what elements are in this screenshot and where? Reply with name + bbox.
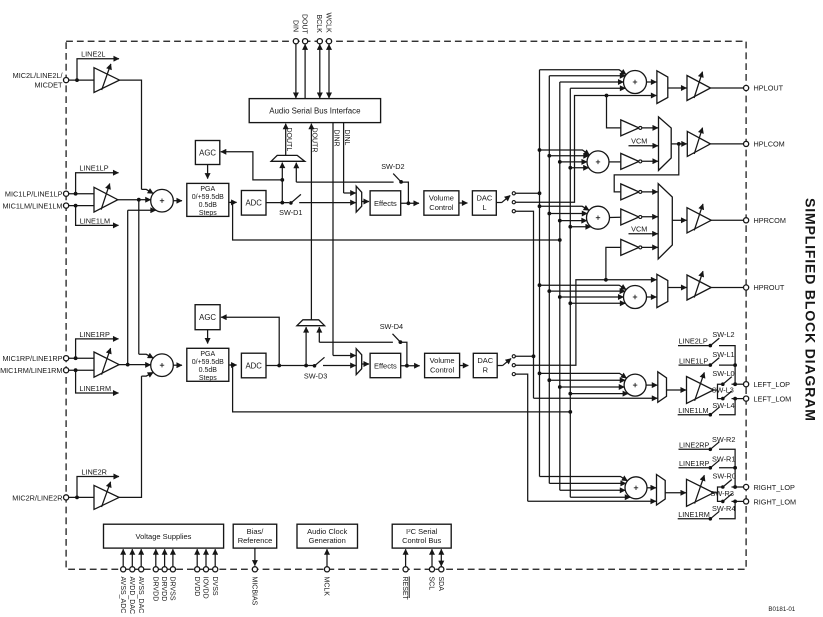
svg-text:DRVSS: DRVSS <box>169 577 176 601</box>
wire v3 to HPROUT sum <box>549 290 625 292</box>
net LINE2L stub <box>77 50 119 81</box>
pin LEFT_LOM <box>744 395 792 404</box>
pin MCLK <box>323 549 330 596</box>
wire DOUTL mux in2 <box>295 163 297 182</box>
svg-text:SCL: SCL <box>428 577 435 591</box>
i2c serial control bus box <box>392 524 451 548</box>
svg-text:DIN: DIN <box>291 20 298 32</box>
svg-text:Volume: Volume <box>429 194 454 203</box>
svg-text:HPLCOM: HPLCOM <box>754 140 785 149</box>
svg-text:RIGHT_LOM: RIGHT_LOM <box>754 497 797 506</box>
wire v8 to HPLOUT mux <box>607 95 657 97</box>
wire volume R to DAC R <box>460 365 469 367</box>
bus wire v5 <box>558 82 562 490</box>
wire DINR <box>332 123 355 356</box>
wire RIGHTLO mux to amp <box>665 492 686 494</box>
svg-text:SW-L2: SW-L2 <box>712 330 734 339</box>
svg-text:Steps: Steps <box>199 210 217 217</box>
svg-text:LINE1LP: LINE1LP <box>679 356 708 365</box>
wire v3 to HPLCOM sum <box>549 155 589 157</box>
mux HPROUT <box>657 274 668 307</box>
bus wire v7 <box>568 88 572 497</box>
wire DACR throw1 to v1 <box>515 355 533 357</box>
wire sum to HPROUT mux <box>647 296 657 298</box>
agc R box <box>195 305 220 330</box>
svg-text:LINE1RP: LINE1RP <box>679 459 710 468</box>
amplifier A-HPLCOM <box>687 128 710 157</box>
svg-text:I2C Serial: I2C Serial <box>406 527 438 536</box>
svg-text:BCLK: BCLK <box>315 15 322 34</box>
wire DACR throw3 to v0 <box>515 374 527 501</box>
net VCM label L <box>629 137 659 146</box>
amplifier A-HPRCOM <box>687 204 711 233</box>
pin AVSS_DAC <box>137 549 144 613</box>
svg-text:DAC: DAC <box>477 356 493 365</box>
pin IOVDD <box>202 549 209 598</box>
amplifier A-1L <box>94 184 118 213</box>
wire v5 to LEFTLO sum <box>560 386 624 388</box>
wire v2 to LEFTLO sum <box>540 373 627 378</box>
wire amp2L to sum1 <box>142 189 154 193</box>
pin DRVDD <box>160 549 167 601</box>
svg-text:WCLK: WCLK <box>324 13 331 34</box>
svg-text:HPROUT: HPROUT <box>754 283 785 292</box>
svg-text:Audio Serial Bus Interface: Audio Serial Bus Interface <box>269 107 361 116</box>
pin MIC1RP/LINE1RP <box>2 354 68 363</box>
wire SWR1/R2 to RIGHT_LOP <box>734 468 736 487</box>
wire v3 to HPLOUT sum <box>549 75 625 77</box>
volume control L box <box>424 191 459 215</box>
summing mixer SUM-HPLOUT <box>624 71 647 94</box>
wire to HPLCOM pin <box>710 143 743 145</box>
bus wire v3 <box>547 76 551 484</box>
svg-text:DINL: DINL <box>343 130 350 146</box>
svg-text:Control: Control <box>429 203 454 212</box>
mux effects R input <box>356 349 362 375</box>
svg-text:LINE2LP: LINE2LP <box>679 337 708 346</box>
wire ADC-L node up to DOUTL mux <box>280 163 284 203</box>
switch SW-D3 <box>304 357 356 380</box>
svg-text:MCLK: MCLK <box>323 577 330 597</box>
wire v0 to RIGHTLO mux <box>528 500 656 502</box>
pin MIC2L/LINE2L/MICDET <box>13 71 69 89</box>
svg-text:LINE1LP: LINE1LP <box>79 164 108 173</box>
svg-text:RIGHT_LOP: RIGHT_LOP <box>754 483 795 492</box>
pin RIGHT_LOP <box>744 483 795 492</box>
wire v7 to HPRCOM sum <box>570 226 591 228</box>
pin HPLOUT <box>744 84 784 93</box>
svg-text:SW-D3: SW-D3 <box>304 372 327 381</box>
svg-text:LINE1LM: LINE1LM <box>678 406 708 415</box>
wire MIC1LP to amp <box>69 192 94 196</box>
wire v5 to HPLCOM sum <box>560 161 587 163</box>
switch SW-D1 <box>279 194 356 217</box>
amplifier A-2L <box>94 64 120 93</box>
switch SW-L4 net LINE1LM <box>678 399 735 417</box>
wire sum to RIGHTLO mux <box>647 487 656 489</box>
pin HPROUT <box>744 283 785 292</box>
svg-text:ADC: ADC <box>245 361 262 370</box>
svg-text:Control Bus: Control Bus <box>402 536 441 545</box>
net LINE1RM stub <box>76 370 119 393</box>
pin LEFT_LOP <box>744 380 791 389</box>
svg-text:SW-R4: SW-R4 <box>712 504 735 513</box>
mux LEFTLO <box>658 372 667 403</box>
svg-text:SIMPLIFIED BLOCK DIAGRAM: SIMPLIFIED BLOCK DIAGRAM <box>802 198 818 422</box>
effects R box <box>370 353 401 377</box>
svg-text:SW-L1: SW-L1 <box>712 350 734 359</box>
switch SW-L3 <box>712 386 744 401</box>
buffer B-HPRCOM1 <box>621 184 658 200</box>
pin BCLK <box>315 15 322 99</box>
pin AVSS_ADC <box>119 549 126 613</box>
wire DOUTR to ASBI <box>311 124 318 320</box>
svg-text:MIC1RP/LINE1RP: MIC1RP/LINE1RP <box>2 354 62 363</box>
wire v5 to HPLOUT sum <box>560 81 624 83</box>
svg-text:DRVDD: DRVDD <box>160 577 167 602</box>
wire v7 to HPROUT sum <box>570 302 625 304</box>
mux HPLOUT <box>657 71 668 104</box>
pin MIC1LP/LINE1LP <box>5 190 69 199</box>
svg-text:LINE2R: LINE2R <box>81 467 107 476</box>
wire amp2L out <box>120 80 142 189</box>
wire DACL throw2 to v8 <box>515 94 608 203</box>
wire to HPROUT pin <box>711 287 743 289</box>
mux effects L input <box>356 186 362 212</box>
svg-text:SW-R0: SW-R0 <box>713 472 736 481</box>
svg-text:SDA: SDA <box>437 577 444 592</box>
svg-text:Generation: Generation <box>309 536 346 545</box>
wire AGC-R feedback <box>221 317 279 365</box>
switch SW-L1 net LINE1LP <box>679 350 737 367</box>
pga R box <box>187 348 229 382</box>
wire v8b to HPROUT mux <box>606 279 657 281</box>
wire v3 to LEFTLO sum <box>549 379 625 381</box>
wire v3 to RIGHTLO sum <box>549 482 626 484</box>
wire HPLOUT mux to amp <box>668 87 687 89</box>
audio clock generation box <box>297 524 358 548</box>
effects L box <box>370 191 401 215</box>
wire PGA-R to ADC-R <box>229 363 237 367</box>
wire ADC-L out <box>266 201 289 205</box>
svg-text:LINE2RP: LINE2RP <box>679 440 710 449</box>
svg-text:AGC: AGC <box>199 313 216 322</box>
svg-text:MIC1RM/LINE1RM: MIC1RM/LINE1RM <box>0 366 62 375</box>
switch SW-R4 net LINE1RM <box>678 501 736 520</box>
svg-text:0.5dB: 0.5dB <box>199 202 218 209</box>
svg-text:DOUTR: DOUTR <box>311 128 318 153</box>
svg-text:RESET: RESET <box>401 577 408 601</box>
pin AVDD_DAC <box>128 549 135 614</box>
adc R box <box>241 353 266 378</box>
svg-text:SW-R1: SW-R1 <box>712 454 735 463</box>
wire to HPLOUT pin <box>711 87 744 89</box>
wire MIC2R to amp <box>69 496 94 500</box>
wire v7 to HPLOUT sum <box>570 87 625 89</box>
svg-text:L: L <box>482 203 486 212</box>
mux DOUTL (flat) <box>271 155 305 161</box>
net LINE2R stub <box>77 467 119 497</box>
wire MIC1RM to amp <box>69 368 94 372</box>
wire amp1R to sum2 <box>119 364 151 366</box>
summing mixer SUM-RIGHTLO <box>625 477 647 499</box>
wire DINL <box>343 123 356 193</box>
wire AGC-L feedback <box>221 152 282 180</box>
wire DACL throw1 to v2 <box>515 191 541 195</box>
wire sum to HPLOUT mux <box>647 81 657 83</box>
svg-text:LINE1RM: LINE1RM <box>79 384 111 393</box>
wire HPROUT mux to amp <box>668 287 687 289</box>
svg-text:MICBIAS: MICBIAS <box>251 577 258 606</box>
adc L box <box>241 191 266 216</box>
svg-text:DINR: DINR <box>332 130 339 147</box>
pin DOUT <box>301 14 308 99</box>
svg-text:DOUTL: DOUTL <box>285 128 292 152</box>
wire volume L to DAC L <box>459 202 468 204</box>
mux HPLCOM <box>659 117 672 170</box>
wire sum to HPLCOM buf2 <box>609 161 620 163</box>
svg-text:ADC: ADC <box>245 199 262 208</box>
wire sum2 to PGA-R <box>173 364 182 366</box>
pin DVSS <box>211 549 218 596</box>
svg-text:AVSS_ADC: AVSS_ADC <box>119 577 126 614</box>
wire sum1 to PGA-L <box>173 200 182 202</box>
mux DOUTR (flat) <box>297 320 325 326</box>
switch SW-L0 <box>712 369 743 386</box>
svg-text:LEFT_LOM: LEFT_LOM <box>754 395 792 404</box>
amplifier A-HPROUT <box>687 271 711 300</box>
wire PGA-L to ADC-L <box>229 201 237 205</box>
wire v5 to HPRCOM sum <box>560 220 587 222</box>
buffer B-HPRCOM3 <box>621 239 658 255</box>
wire v1 to LEFTLO mux <box>534 397 658 399</box>
wire PGA-L feedback to bus <box>233 202 562 242</box>
svg-text:Audio Clock: Audio Clock <box>307 527 347 536</box>
svg-text:SW-D1: SW-D1 <box>279 208 302 217</box>
wire v3 to HPRCOM sum <box>549 213 587 215</box>
agc L box <box>195 141 219 165</box>
pin RESET <box>401 549 409 600</box>
svg-text:MIC1LP/LINE1LP: MIC1LP/LINE1LP <box>5 190 63 199</box>
audio serial bus interface U-ASBI <box>249 99 380 123</box>
svg-text:Voltage Supplies: Voltage Supplies <box>136 532 192 541</box>
volume control R box <box>425 353 460 377</box>
dac L box <box>472 191 496 215</box>
bus wire v2 <box>538 70 542 477</box>
switch SW-R1 net LINE1RP <box>679 454 737 469</box>
pin DVDD <box>193 549 200 596</box>
title SIMPLIFIED BLOCK DIAGRAM <box>802 198 818 422</box>
wire DACR throw2 to v8b <box>515 278 607 365</box>
wire amp1L to sum1 <box>118 198 151 202</box>
wire v2 to HPLCOM sum <box>540 150 590 155</box>
chip boundary (dashed) <box>66 41 746 569</box>
summing mixer SUM-LEFTLO <box>624 374 646 396</box>
wire effects R mux out <box>362 363 369 365</box>
figure number B0181-01 <box>768 606 795 613</box>
svg-text:Bias/: Bias/ <box>247 527 265 536</box>
wire amp1R branch to sum1 <box>126 210 156 366</box>
wire amp1L branch to sum2 <box>139 200 153 358</box>
switch DAC-L throws <box>496 192 515 213</box>
switch SW-R2 net LINE2RP <box>679 435 736 468</box>
bias/reference box <box>233 524 277 548</box>
summing mixer SUM-R <box>151 354 174 377</box>
wire v2 to HPLOUT sum <box>540 70 627 75</box>
wire v2 to HPROUT sum <box>540 285 627 289</box>
summing mixer SUM-HPLCOM <box>587 151 609 173</box>
svg-text:LINE1RP: LINE1RP <box>79 330 110 339</box>
wire RIGHTLO amp out split <box>714 487 722 501</box>
pin RIGHT_LOM <box>744 497 797 506</box>
svg-text:0/+59.5dB: 0/+59.5dB <box>192 359 224 366</box>
wire effects R out <box>401 364 420 368</box>
svg-text:PGA: PGA <box>200 186 215 193</box>
wire v2 to RIGHTLO sum <box>540 477 628 481</box>
svg-text:Reference: Reference <box>238 536 273 545</box>
svg-text:SW-L0: SW-L0 <box>712 369 734 378</box>
svg-text:LINE1LM: LINE1LM <box>80 216 110 225</box>
net VCM label R <box>629 225 658 234</box>
svg-text:HPLOUT: HPLOUT <box>754 84 784 93</box>
svg-text:Steps: Steps <box>199 375 217 382</box>
mux RIGHTLO <box>657 475 666 506</box>
svg-text:SW-L3: SW-L3 <box>712 386 734 395</box>
net LINE1RP stub <box>76 330 119 358</box>
svg-text:MIC2L/LINE2L/: MIC2L/LINE2L/ <box>13 71 64 80</box>
svg-text:MICDET: MICDET <box>35 80 64 89</box>
svg-text:SW-L4: SW-L4 <box>712 401 734 410</box>
amplifier A-LEFTLO <box>687 372 714 403</box>
svg-text:PGA: PGA <box>200 351 215 358</box>
svg-text:Effects: Effects <box>374 361 397 370</box>
buffer B-HPLCOM1 <box>621 120 658 136</box>
svg-text:LINE2L: LINE2L <box>81 50 105 59</box>
pin MICBIAS <box>251 548 258 606</box>
pin MIC1LM/LINE1LM <box>2 202 68 211</box>
wire effects L out <box>401 201 419 205</box>
pin MIC2R/LINE2R <box>12 493 68 502</box>
wire DACL throw3 to v1 <box>515 211 535 398</box>
wire amp2R to sum2 <box>119 372 153 497</box>
svg-text:DAC: DAC <box>476 194 492 203</box>
dac R box <box>473 353 497 377</box>
svg-text:0.5dB: 0.5dB <box>199 367 218 374</box>
pin SCL <box>428 549 435 590</box>
svg-text:AVSS_DAC: AVSS_DAC <box>137 577 144 614</box>
switch SW-R3 <box>711 489 744 504</box>
svg-text:Control: Control <box>430 365 455 374</box>
switch SW-L2 net LINE2LP <box>678 330 735 365</box>
amplifier A-1R <box>94 348 119 377</box>
wire v7 to LEFTLO sum <box>570 393 628 395</box>
svg-text:IOVDD: IOVDD <box>202 577 209 599</box>
svg-text:MIC1LM/LINE1LM: MIC1LM/LINE1LM <box>2 202 62 211</box>
amplifier A-RIGHTLO <box>687 475 714 506</box>
wire v5 to HPROUT sum <box>560 296 624 298</box>
wire effects L mux out <box>362 201 369 203</box>
pin HPLCOM <box>744 140 785 149</box>
svg-text:DRVDD: DRVDD <box>151 577 158 602</box>
wire v2 to HPRCOM sum <box>540 206 590 210</box>
amplifier A-2R <box>94 482 119 510</box>
pin MIC1RM/LINE1RM <box>0 366 69 375</box>
wire AGC-L to PGA-L <box>207 165 209 179</box>
wire to HPRCOM pin <box>711 219 743 221</box>
wire MIC1RP to amp <box>69 356 94 360</box>
svg-text:SW-R2: SW-R2 <box>712 435 735 444</box>
svg-text:0/+59.5dB: 0/+59.5dB <box>192 194 224 201</box>
pin DRVDD <box>151 549 158 601</box>
svg-text:B0181-01: B0181-01 <box>768 606 795 613</box>
wire DOUTR mux in2 <box>318 327 320 342</box>
svg-text:SW-R3: SW-R3 <box>711 489 734 498</box>
net LINE1LP stub <box>76 164 119 194</box>
summing mixer SUM-HPROUT <box>624 286 647 309</box>
svg-text:Effects: Effects <box>374 199 397 208</box>
pin DRVSS <box>169 549 176 601</box>
wire LEFTLO amp out split <box>714 384 722 398</box>
wire LEFTLO mux to amp <box>667 389 687 391</box>
buffer B-HPRCOM2 <box>621 209 658 225</box>
wire DOUTL to ASBI <box>285 124 292 156</box>
svg-text:LINE1RM: LINE1RM <box>678 510 710 519</box>
wire AGC-R to PGA-R <box>207 330 209 344</box>
mux HPRCOM <box>658 184 672 259</box>
wire v7 to HPLCOM sum <box>570 167 588 169</box>
svg-text:LEFT_LOP: LEFT_LOP <box>754 380 791 389</box>
summing mixer SUM-L <box>151 189 174 212</box>
voltage supplies box <box>104 524 224 548</box>
net LINE1LM stub <box>76 206 119 226</box>
pga L box <box>187 183 229 217</box>
wire v8 branch to HPLCOM buf <box>607 96 621 128</box>
wire HPLCOM crossfeed to HPRCOM buf <box>614 144 679 192</box>
wire SWL1/L2 to LEFT_LOP <box>734 365 736 384</box>
svg-text:SW-D2: SW-D2 <box>381 162 404 171</box>
wire HPLCOM mux to amp <box>671 142 687 146</box>
svg-text:R: R <box>483 365 489 374</box>
wire v5 to RIGHTLO sum <box>560 489 625 491</box>
wire MIC2L to amp <box>69 78 94 82</box>
wire sum to HPRCOM buf2 <box>610 216 621 218</box>
switch SW-R0 <box>713 472 744 489</box>
switch DAC-R throws <box>497 355 515 376</box>
svg-text:DVSS: DVSS <box>211 577 218 596</box>
svg-text:VCM: VCM <box>631 137 647 146</box>
pin SDA <box>437 549 444 591</box>
switch SW-D2 <box>296 162 408 203</box>
wire HPRCOM mux to amp <box>672 219 686 221</box>
pin DIN <box>291 20 298 98</box>
svg-text:SW-D4: SW-D4 <box>380 322 403 331</box>
svg-text:HPRCOM: HPRCOM <box>754 216 786 225</box>
svg-text:DOUT: DOUT <box>301 14 308 35</box>
svg-text:MIC2R/LINE2R: MIC2R/LINE2R <box>12 493 62 502</box>
wire PGA-R feedback to bus <box>233 365 573 414</box>
svg-text:VCM: VCM <box>631 225 647 234</box>
wire sum to LEFTLO mux <box>646 384 657 386</box>
pin HPRCOM <box>744 216 786 225</box>
wire v8b branch to HPRCOM buf <box>606 247 621 279</box>
switch SW-D4 <box>319 322 407 366</box>
svg-text:AGC: AGC <box>199 148 216 157</box>
wire v7 to RIGHTLO sum <box>570 496 630 498</box>
amplifier A-HPLOUT <box>687 72 711 101</box>
buffer B-HPLCOM2 <box>621 153 658 169</box>
svg-text:AVDD_DAC: AVDD_DAC <box>128 577 135 615</box>
wire MIC1LM to amp <box>69 204 94 208</box>
